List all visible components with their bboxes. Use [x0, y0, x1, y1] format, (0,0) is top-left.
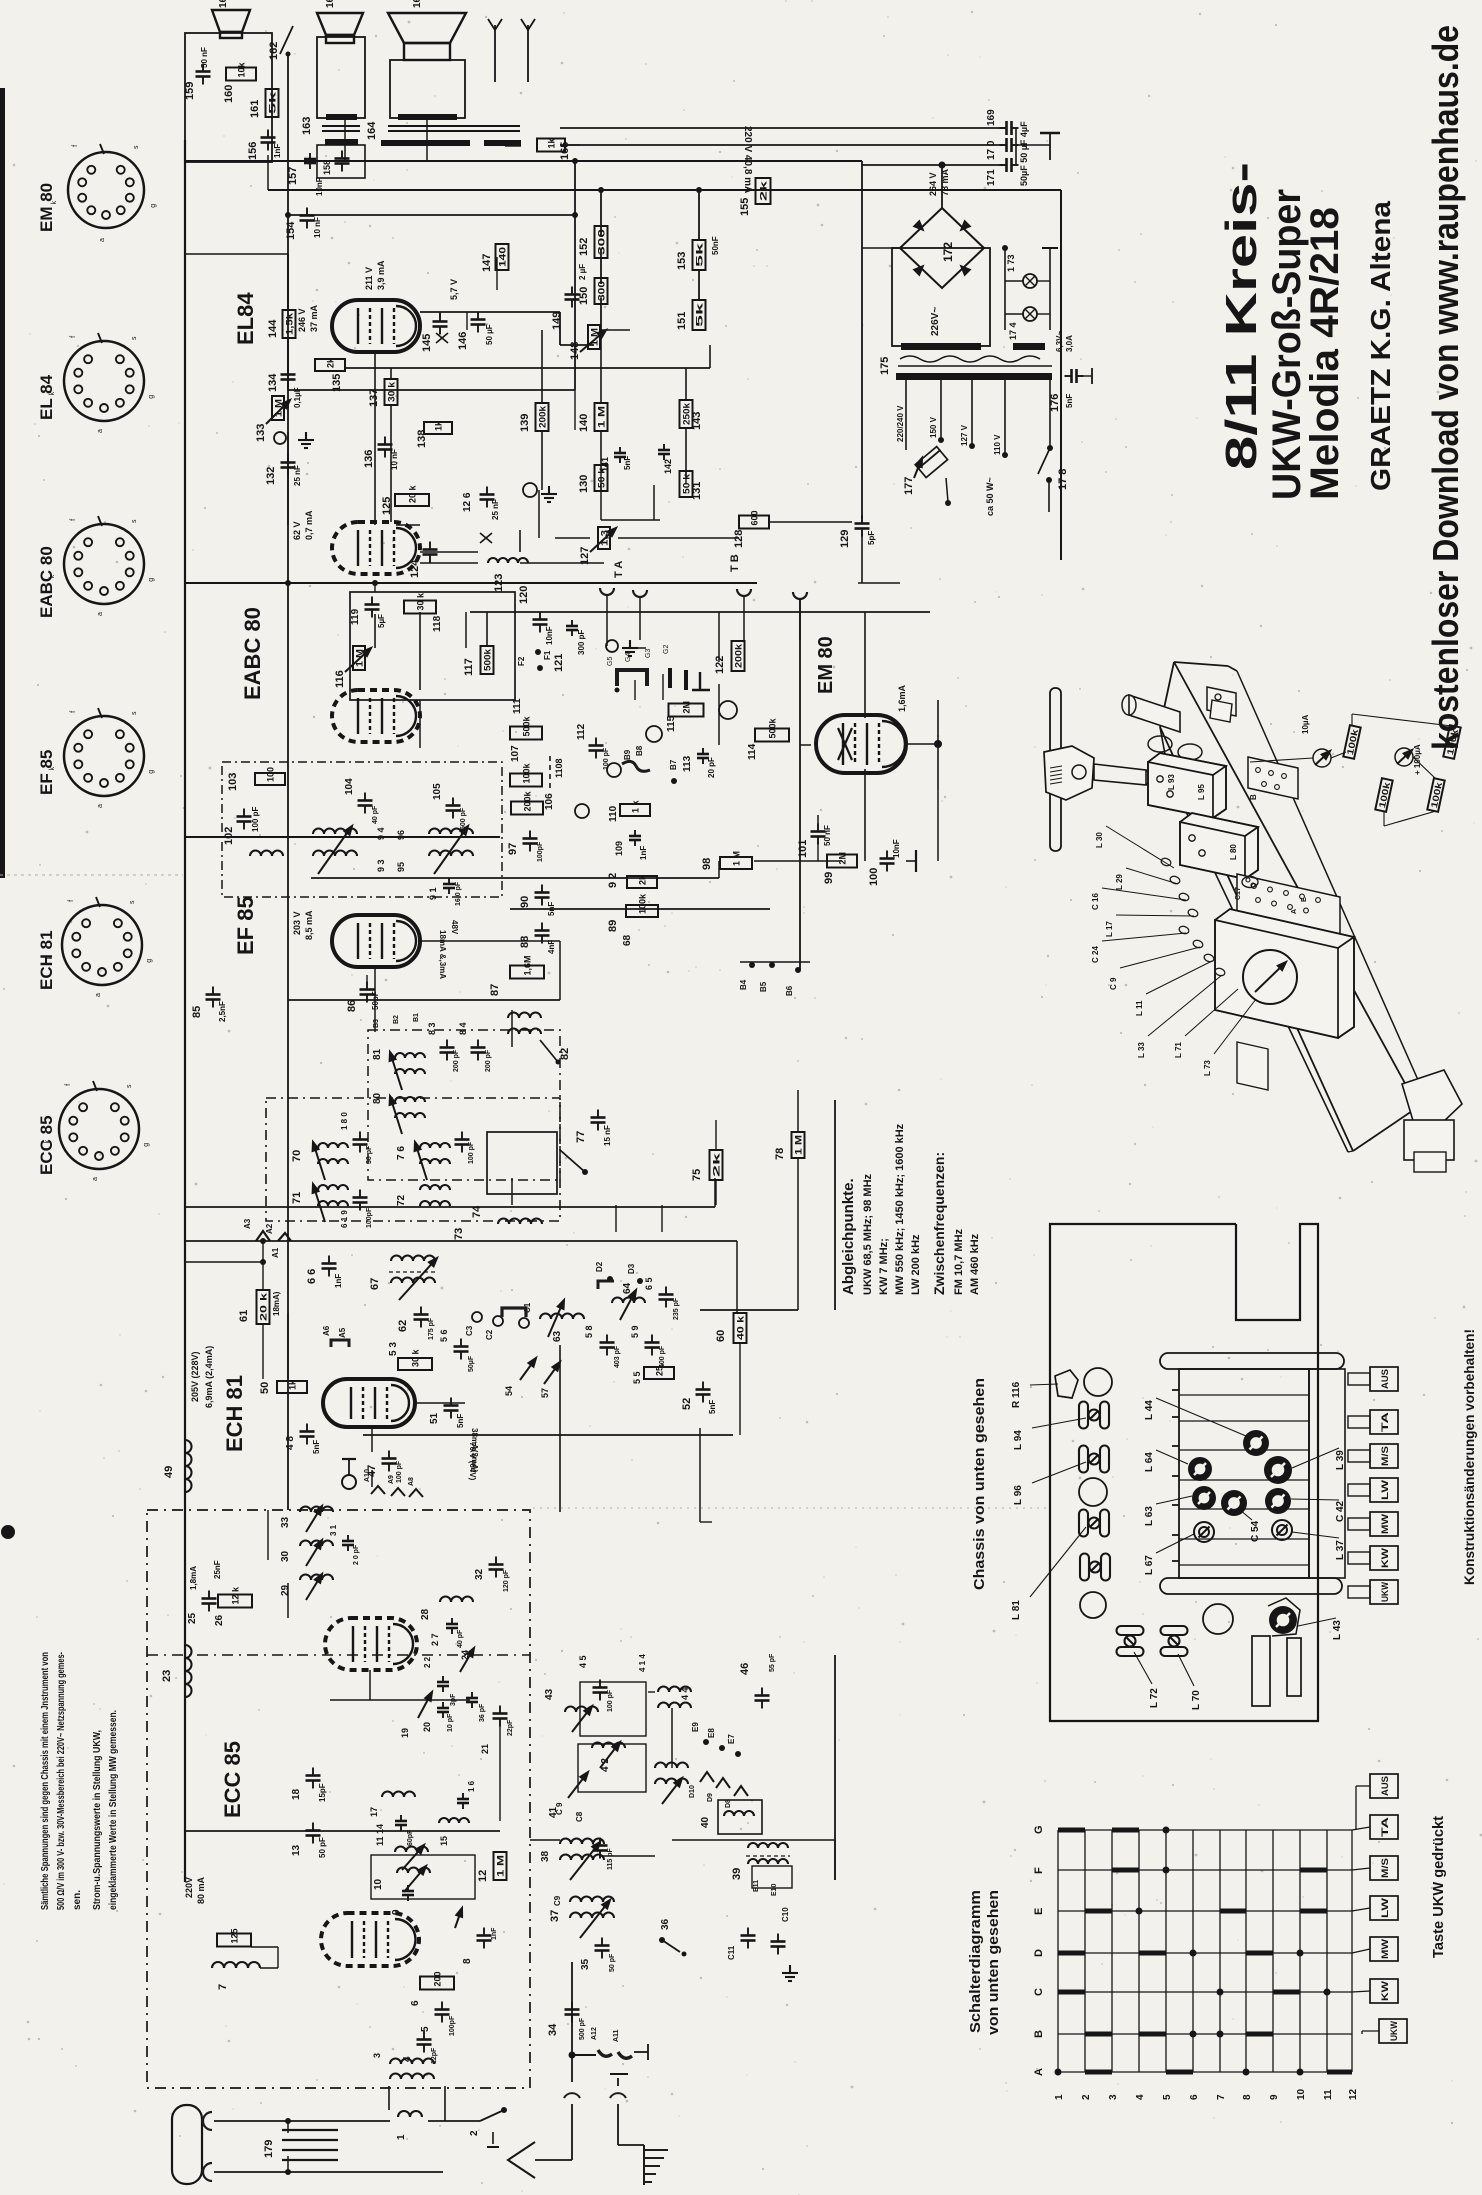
- terminal: [606, 640, 618, 652]
- svg-text:30 pF: 30 pF: [366, 1145, 373, 1164]
- wire: [282, 2129, 338, 2131]
- wire rail y1000: [288, 999, 560, 1001]
- wire: [600, 330, 602, 403]
- wire: [1348, 1151, 1353, 1152]
- wire: [718, 684, 720, 745]
- svg-text:2M: 2M: [838, 852, 848, 865]
- svg-text:163: 163: [301, 117, 313, 135]
- svg-text:100 pF: 100 pF: [396, 1460, 403, 1483]
- capacitor 105 500pF: [446, 798, 461, 819]
- IF can L94 bottom: [1079, 1402, 1109, 1429]
- coil 43: [565, 1707, 598, 1713]
- E9 E8 E7 terminals: [703, 1739, 709, 1745]
- wire: [540, 1040, 558, 1062]
- svg-text:168: 168: [412, 0, 423, 8]
- wire: [834, 1100, 836, 1310]
- svg-text:B3: B3: [373, 1019, 380, 1028]
- wire: [800, 744, 811, 746]
- coil 72: [420, 1185, 450, 1190]
- resistor 147 140: [496, 244, 509, 270]
- wire: [898, 365, 1052, 367]
- terminal circle with T: [342, 1475, 356, 1489]
- switch band box MW: [1370, 1937, 1398, 1961]
- svg-text:ECH 81: ECH 81: [222, 1375, 247, 1452]
- wire: [436, 333, 448, 343]
- wire: [1356, 1785, 1370, 1787]
- capacitor 134 0,1uF: [281, 367, 296, 388]
- chassis iso: drive shaft: [1094, 764, 1146, 785]
- svg-text:5k: 5k: [695, 301, 705, 327]
- capacitor 157: [304, 153, 316, 169]
- wire: [1178, 1654, 1194, 1686]
- svg-text:KW: KW: [1380, 1980, 1390, 2001]
- svg-text:50 pF: 50 pF: [318, 1837, 327, 1858]
- tube ECH 81: [323, 1379, 415, 1427]
- svg-text:8: 8: [1242, 2094, 1253, 2100]
- svg-text:LW 200 kHz: LW 200 kHz: [910, 1234, 922, 1295]
- wire: [267, 155, 269, 190]
- capacitor 813 200pF: [440, 1040, 455, 1061]
- capacitor 113 20pF: [697, 748, 709, 764]
- capacitor 18 15pF: [306, 1768, 321, 1789]
- svg-text:5: 5: [420, 2026, 431, 2032]
- svg-text:2k: 2k: [638, 874, 648, 885]
- svg-text:132: 132: [265, 467, 277, 485]
- svg-text:16: 16: [218, 0, 229, 8]
- x mark: [480, 533, 492, 543]
- wire: [396, 524, 420, 526]
- svg-text:125: 125: [230, 1928, 240, 1943]
- wire: [287, 338, 289, 390]
- wire: [499, 1724, 501, 1821]
- svg-text:2k: 2k: [759, 179, 769, 201]
- C3 C2 C1 trimmers: [472, 1312, 482, 1322]
- svg-text:175: 175: [879, 357, 891, 375]
- wire left drop: [861, 161, 863, 518]
- svg-text:1 6: 1 6: [467, 1780, 476, 1792]
- svg-text:20 pF: 20 pF: [707, 757, 716, 778]
- svg-text:1,8mA: 1,8mA: [189, 1566, 198, 1590]
- capacitor 158 5nF: [335, 151, 350, 172]
- switch diagram grid verticals: [1058, 1830, 1352, 2072]
- svg-text:L 73: L 73: [1203, 1060, 1212, 1076]
- trimmer C42: [1265, 1488, 1291, 1514]
- svg-text:k: k: [49, 766, 56, 770]
- svg-text:12 6: 12 6: [462, 492, 473, 512]
- svg-text:81: 81: [372, 1048, 383, 1060]
- wire: [862, 247, 900, 249]
- ground: [782, 1965, 798, 1981]
- wire: [834, 1840, 836, 1880]
- svg-text:E11: E11: [753, 1880, 760, 1892]
- dial bar bottom: [1160, 1578, 1342, 1594]
- wire: [277, 1947, 279, 1968]
- wire rail y909: [510, 908, 770, 910]
- capacitor 115pF: [593, 1838, 608, 1859]
- wire: [538, 490, 540, 538]
- svg-text:LW: LW: [1380, 1479, 1390, 1500]
- svg-text:11 14: 11 14: [375, 1824, 385, 1846]
- svg-text:124: 124: [409, 559, 421, 578]
- wire: [1004, 248, 1006, 330]
- loudspeaker 166: [212, 10, 250, 32]
- wire: [1060, 190, 1062, 560]
- coil 49 on bus: [185, 1440, 192, 1492]
- resistor 153 5k: [693, 240, 706, 270]
- wire: [559, 312, 561, 345]
- wire: [444, 2086, 446, 2121]
- svg-text:10: 10: [373, 1878, 384, 1890]
- coil 1 secondary: [398, 2111, 422, 2117]
- tube socket EABC 80: [64, 524, 144, 604]
- svg-text:1nF: 1nF: [491, 1927, 498, 1940]
- svg-text:17 4: 17 4: [1008, 322, 1018, 340]
- resistor 160 10k: [226, 68, 256, 81]
- svg-text:1,6M: 1,6M: [523, 955, 533, 975]
- terminal 2: [492, 2132, 494, 2144]
- svg-text:1 M: 1 M: [597, 406, 607, 428]
- wire: [185, 1261, 263, 1263]
- svg-text:L 43: L 43: [1332, 1620, 1343, 1640]
- switch diagram grid horizontals: [1058, 1830, 1352, 2072]
- wire: [287, 1583, 289, 1618]
- svg-text:G5: G5: [607, 657, 614, 666]
- wire: [426, 118, 428, 161]
- svg-text:28: 28: [420, 1608, 431, 1620]
- svg-text:200 pF: 200 pF: [453, 1049, 460, 1072]
- pot 133 arrow: [266, 400, 290, 424]
- B9 B8 arcs: [607, 763, 621, 777]
- svg-text:151: 151: [676, 312, 688, 330]
- svg-text:23: 23: [161, 1670, 173, 1682]
- svg-text:140: 140: [578, 414, 590, 432]
- svg-text:4nF: 4nF: [547, 940, 556, 954]
- box E11 E10: [752, 1866, 792, 1888]
- capacitor 59 400pF: [645, 1335, 660, 1356]
- aerial arrow symbol: [508, 2142, 535, 2178]
- wire: [817, 815, 819, 826]
- wire: [1160, 727, 1353, 1151]
- capacitor 47 100pF: [382, 1451, 397, 1472]
- svg-text:18mA &,3mA: 18mA &,3mA: [438, 930, 447, 979]
- wire: [1291, 1499, 1339, 1500]
- svg-text:C 9: C 9: [1109, 977, 1118, 990]
- svg-text:87: 87: [489, 984, 501, 996]
- wire mains bottom: [214, 2171, 443, 2173]
- resistor 137 30k: [385, 379, 398, 405]
- svg-text:106: 106: [544, 793, 555, 810]
- wire: [511, 1010, 513, 1047]
- svg-text:138: 138: [416, 430, 428, 448]
- wire: [348, 1459, 350, 1475]
- wire: [184, 140, 186, 1882]
- coil 28 cluster: [440, 1597, 473, 1603]
- svg-text:100: 100: [868, 868, 880, 886]
- svg-text:5: 5: [1162, 2094, 1173, 2100]
- svg-text:50µF 50 µF 4µF: 50µF 50 µF 4µF: [1019, 121, 1029, 186]
- wire: [715, 1120, 717, 1151]
- svg-text:A11: A11: [613, 2029, 620, 2042]
- svg-text:MW: MW: [1380, 1513, 1390, 1534]
- button tab UKW: [1348, 1586, 1370, 1598]
- chassis iso: big electrolytic cylinder: [1129, 695, 1180, 732]
- svg-text:B6: B6: [785, 985, 794, 996]
- svg-text:5nF: 5nF: [312, 1440, 321, 1454]
- svg-text:Schalterdiagramm: Schalterdiagramm: [967, 1890, 984, 2033]
- svg-text:70: 70: [291, 1150, 303, 1162]
- capacitor 4 12pF: [417, 2032, 432, 2053]
- wire: [1005, 313, 1023, 315]
- wire: [1174, 662, 1418, 1107]
- svg-text:6 1 9: 6 1 9: [340, 1210, 349, 1228]
- wire: [1172, 1416, 1179, 1418]
- svg-text:6,9mA (2,4mA): 6,9mA (2,4mA): [204, 1346, 214, 1408]
- svg-text:L 29: L 29: [1115, 874, 1124, 890]
- svg-text:3: 3: [372, 2053, 382, 2058]
- svg-text:137: 137: [368, 389, 380, 407]
- svg-text:77: 77: [575, 1131, 587, 1143]
- svg-text:D9: D9: [707, 1793, 714, 1802]
- svg-text:15: 15: [439, 1836, 449, 1846]
- terminal F: [719, 701, 737, 719]
- wire: [971, 380, 973, 446]
- wire: [799, 599, 801, 640]
- potentiometer 127: [598, 527, 610, 549]
- svg-text:102: 102: [223, 827, 235, 845]
- svg-text:143: 143: [691, 412, 703, 430]
- wire: [1116, 915, 1194, 916]
- svg-text:205V (228V): 205V (228V): [190, 1351, 200, 1402]
- coil 10 + trimmer in box: [371, 1855, 475, 1899]
- svg-text:39: 39: [731, 1868, 743, 1880]
- svg-text:L 70: L 70: [1191, 1690, 1202, 1710]
- coil 73: [498, 1219, 542, 1225]
- FM IF dash-dot box: [266, 1098, 560, 1221]
- coil 42: [592, 1743, 625, 1749]
- svg-text:L 81: L 81: [1011, 1600, 1022, 1620]
- tube socket ECC 85: [59, 1089, 139, 1169]
- pot 116 arrow: [345, 648, 371, 672]
- thick hook: [502, 1308, 526, 1317]
- svg-text:2 2: 2 2: [423, 1656, 432, 1668]
- wire: [1351, 714, 1353, 726]
- svg-text:36: 36: [660, 1918, 671, 1930]
- svg-text:111: 111: [512, 698, 523, 714]
- svg-text:62 V: 62 V: [292, 521, 302, 540]
- wire: [1353, 1107, 1418, 1151]
- wire: [1228, 666, 1237, 671]
- wire: [1037, 313, 1050, 315]
- svg-text:150: 150: [578, 287, 590, 305]
- svg-text:G4: G4: [625, 653, 632, 662]
- wire: [838, 728, 852, 760]
- svg-text:L 72: L 72: [1149, 1688, 1160, 1708]
- capacitor 48 5nF: [300, 1424, 315, 1445]
- svg-text:6 6: 6 6: [306, 1269, 318, 1284]
- svg-text:2,5nF: 2,5nF: [218, 1001, 227, 1022]
- wire: [600, 431, 602, 470]
- tube socket ECH 81: [62, 905, 142, 985]
- svg-text:164: 164: [366, 121, 378, 140]
- svg-text:f: f: [70, 711, 77, 713]
- capacitor 141 5nF: [614, 447, 626, 463]
- svg-text:169: 169: [986, 109, 997, 126]
- svg-text:9 1: 9 1: [428, 887, 438, 900]
- svg-text:129: 129: [839, 530, 851, 548]
- resistor 50 1k: [277, 1381, 307, 1393]
- capacitor 119 5uF: [365, 597, 380, 618]
- svg-text:30: 30: [280, 1550, 291, 1562]
- svg-text:Abgleichpunkte.: Abgleichpunkte.: [840, 1178, 857, 1295]
- wire: [388, 125, 520, 127]
- coil 71: [318, 1185, 348, 1190]
- trimmer 54: [520, 1358, 536, 1380]
- svg-text:500k: 500k: [522, 715, 532, 736]
- svg-text:T B: T B: [729, 554, 741, 572]
- strip 2: [1287, 1638, 1301, 1696]
- svg-text:1108: 1108: [554, 758, 564, 778]
- wire TB down: [799, 599, 801, 970]
- svg-text:A1: A1: [271, 1247, 280, 1258]
- wire: [1355, 1786, 1357, 1830]
- svg-text:5 3: 5 3: [388, 1342, 399, 1356]
- capacitor 171 4uF: [1000, 158, 1019, 172]
- wire: [511, 1178, 513, 1205]
- svg-text:L 80: L 80: [1229, 844, 1238, 860]
- svg-text:9 4: 9 4: [376, 827, 386, 840]
- antenna terminals A3 A2 A1: [256, 1231, 270, 1241]
- wire: [1384, 811, 1436, 826]
- TA terminals: [600, 588, 614, 595]
- svg-text:70 V (64V): 70 V (64V): [468, 1442, 477, 1481]
- box 74: [487, 1132, 557, 1194]
- wire: [648, 1691, 655, 1693]
- capacitor 154 10nF: [300, 208, 315, 229]
- G bar 2: [684, 670, 688, 690]
- svg-text:EL84: EL84: [233, 292, 258, 345]
- wire: [1156, 1450, 1188, 1464]
- svg-text:122: 122: [714, 656, 726, 674]
- coils right bottom: [655, 1763, 688, 1768]
- svg-text:172: 172: [941, 242, 955, 262]
- wire: [282, 2159, 338, 2161]
- wire rail: [185, 160, 862, 162]
- svg-text:Sämtliche Spannungen sind ge: Sämtliche Spannungen sind gegen Chassis …: [40, 1652, 51, 1910]
- svg-text:105: 105: [432, 783, 443, 800]
- svg-text:51: 51: [429, 1412, 440, 1424]
- svg-text:121: 121: [553, 654, 565, 672]
- svg-text:100 pF: 100 pF: [607, 1689, 614, 1712]
- capacitor 27 40pF: [446, 1618, 458, 1634]
- coil 39 cluster: [748, 1843, 788, 1848]
- wire: [287, 400, 289, 408]
- svg-text:A2: A2: [265, 1223, 274, 1234]
- svg-text:158: 158: [322, 160, 332, 175]
- wire: [342, 1458, 356, 1460]
- resistor 92 2k: [627, 876, 657, 888]
- wire: [685, 428, 687, 477]
- wire: [1172, 1560, 1179, 1562]
- wire: [1156, 1534, 1194, 1553]
- svg-text:37: 37: [549, 1910, 561, 1922]
- wire: [420, 940, 560, 942]
- svg-text:11: 11: [1323, 2089, 1334, 2100]
- svg-text:EF 85: EF 85: [37, 750, 56, 795]
- under-chassis outline: [1050, 1224, 1318, 1721]
- capacitor 109 1nF: [629, 830, 641, 846]
- resistor 144 1,5k: [283, 310, 296, 338]
- svg-text:7: 7: [1216, 2094, 1227, 2100]
- svg-text:226V~: 226V~: [930, 307, 941, 336]
- capacitor 88 4nF: [535, 923, 550, 944]
- wire: [1050, 770, 1062, 772]
- svg-text:C2: C2: [485, 1329, 494, 1340]
- capacitor 102 100pF: [237, 809, 252, 830]
- transformer 175 primary loop: [892, 248, 990, 346]
- resistor 140 1M: [595, 403, 608, 431]
- wire: [530, 1839, 560, 1841]
- svg-text:88: 88: [519, 936, 531, 948]
- capacitor 62 175pF: [414, 1307, 429, 1328]
- svg-text:5nF: 5nF: [623, 456, 632, 470]
- wire: [420, 551, 478, 553]
- dashed partition: [147, 1654, 530, 1656]
- svg-text:5 6: 5 6: [439, 1329, 449, 1342]
- tube EABC 80 envelope: [332, 690, 420, 742]
- wire: [1352, 1908, 1370, 1911]
- svg-text:55 pF: 55 pF: [769, 1653, 776, 1672]
- capacitor 814 200pF: [471, 1040, 486, 1061]
- svg-text:G3: G3: [645, 649, 652, 658]
- tube ECC85 b: [321, 1913, 419, 1966]
- resistor 87 1,6M: [510, 966, 544, 979]
- wire: [390, 368, 392, 378]
- svg-text:26: 26: [214, 1614, 225, 1626]
- svg-text:0,1µF: 0,1µF: [293, 387, 302, 408]
- button box UKW: [1370, 1580, 1398, 1604]
- svg-text:D3: D3: [627, 1263, 636, 1274]
- wire: [287, 254, 289, 310]
- svg-text:120: 120: [518, 586, 530, 604]
- wire: [661, 1205, 663, 1232]
- box 42/41: [578, 1744, 646, 1792]
- svg-text:157: 157: [287, 167, 299, 185]
- svg-text:142: 142: [663, 459, 673, 474]
- svg-text:+ 100µA: + 100µA: [1413, 744, 1422, 775]
- wire: [1134, 1652, 1152, 1684]
- switch band box AUS: [1370, 1774, 1398, 1798]
- switch band box M/S: [1370, 1856, 1398, 1880]
- wire: [507, 2159, 509, 2161]
- lamp 174: [1023, 307, 1037, 321]
- svg-text:131: 131: [691, 482, 703, 500]
- svg-text:L 95: L 95: [1197, 784, 1206, 800]
- chassis iso: dial bracket: [1237, 1042, 1268, 1090]
- svg-text:500k: 500k: [483, 648, 493, 671]
- svg-text:40 pF: 40 pF: [457, 1629, 464, 1648]
- wire: [698, 190, 700, 240]
- chassis iso: IF can box L80: [1180, 813, 1258, 879]
- svg-text:40 pF: 40 pF: [372, 805, 379, 824]
- svg-text:A: A: [1291, 909, 1298, 914]
- svg-text:52: 52: [681, 1398, 693, 1410]
- svg-text:UKW: UKW: [1389, 2021, 1399, 2041]
- svg-text:99: 99: [823, 872, 835, 884]
- svg-text:2 7: 2 7: [430, 1633, 440, 1646]
- wire: [1179, 1394, 1309, 1396]
- wire: [1298, 1618, 1336, 1626]
- svg-text:k: k: [47, 955, 54, 959]
